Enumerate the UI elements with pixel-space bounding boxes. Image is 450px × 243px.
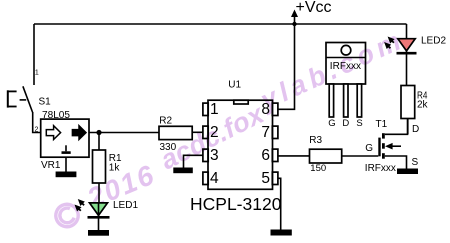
svg-text:G: G <box>328 118 335 129</box>
svg-text:1k: 1k <box>109 162 121 173</box>
svg-text:T1: T1 <box>376 119 388 130</box>
svg-text:4: 4 <box>210 170 219 187</box>
svg-text:LED2: LED2 <box>421 36 446 47</box>
svg-text:G: G <box>365 143 373 154</box>
svg-text:HCPL-3120: HCPL-3120 <box>190 194 282 214</box>
svg-text:R3: R3 <box>309 135 322 146</box>
svg-text:U1: U1 <box>228 79 241 90</box>
svg-text:6: 6 <box>261 147 270 164</box>
svg-text:5: 5 <box>261 170 270 187</box>
svg-text:+Vcc: +Vcc <box>296 0 332 16</box>
svg-text:LED1: LED1 <box>113 200 138 211</box>
svg-text:3: 3 <box>210 147 219 164</box>
svg-text:D: D <box>412 124 419 135</box>
svg-text:1: 1 <box>35 70 39 77</box>
svg-text:R2: R2 <box>159 116 172 127</box>
svg-text:8: 8 <box>261 101 270 118</box>
svg-text:S: S <box>356 118 362 129</box>
svg-text:78L05: 78L05 <box>42 110 70 121</box>
svg-text:330: 330 <box>160 142 177 153</box>
svg-text:2: 2 <box>35 126 39 133</box>
svg-text:2k: 2k <box>417 100 429 111</box>
svg-text:D: D <box>342 118 349 129</box>
svg-text:IRFxxx: IRFxxx <box>365 163 396 174</box>
svg-text:S1: S1 <box>39 97 52 108</box>
svg-text:VR1: VR1 <box>41 160 61 171</box>
svg-text:2: 2 <box>210 124 219 141</box>
svg-text:150: 150 <box>310 163 326 174</box>
svg-text:IRFxxx: IRFxxx <box>330 61 361 72</box>
svg-text:S: S <box>412 157 419 168</box>
svg-text:1: 1 <box>210 101 219 118</box>
svg-text:7: 7 <box>261 124 270 141</box>
